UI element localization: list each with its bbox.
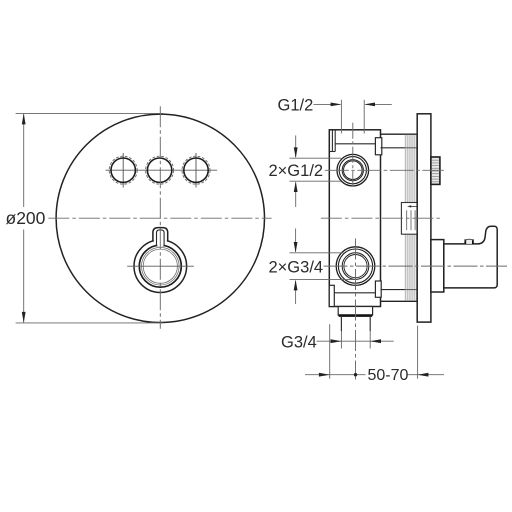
dimension ø200 extension top — [16, 112, 164, 114]
button 2 — [146, 156, 174, 184]
svg-text:50-70: 50-70 — [368, 367, 409, 384]
dimension 2xG3/4 extension lines — [290, 253, 356, 280]
front plate circle — [56, 114, 264, 322]
dimension 50-70 arrows — [319, 373, 429, 377]
centerline port G1/2 axis — [325, 169, 444, 171]
button crosshair horizontal — [106, 169, 218, 171]
knob body circle — [139, 245, 181, 287]
button 1 crosshair vertical — [122, 153, 124, 188]
button 3 crosshair vertical — [195, 153, 197, 188]
dimension G3/4 extension right — [369, 331, 371, 349]
centerline port G3/4 vertical — [355, 239, 357, 380]
dimension G1/2 leader left with arrow — [314, 103, 342, 107]
centerline port G1/2 vertical — [352, 123, 354, 190]
body internal line top — [335, 143, 375, 145]
handle hub — [431, 240, 444, 292]
centerline horizontal main axis front — [48, 217, 271, 219]
knob inner rings — [142, 247, 180, 285]
port G3/4 circles — [336, 247, 375, 286]
dimension 50-70 line right — [408, 374, 445, 376]
dimension G1/2 right arrow — [364, 103, 392, 107]
svg-text:2×G3/4: 2×G3/4 — [269, 258, 324, 276]
sleeve clamp block — [401, 203, 417, 235]
dimension ø200 line upper — [23, 114, 25, 207]
dimension 2xG3/4 arrows — [294, 229, 298, 305]
body bottom-left tab — [329, 285, 334, 306]
dimension 2xG1/2 extension lines — [290, 158, 342, 181]
dimension G3/4 line — [317, 340, 394, 342]
dimension ø200 line lower — [23, 230, 25, 323]
svg-text:ø200: ø200 — [6, 208, 46, 228]
centerline vertical front view — [159, 106, 161, 328]
centerline main axis right view — [321, 217, 441, 219]
body top-right tab — [375, 138, 381, 155]
svg-text:G1/2: G1/2 — [278, 96, 314, 114]
button 1 — [109, 156, 137, 184]
outlet pipe left wall — [340, 316, 342, 331]
valve body block — [329, 130, 380, 307]
body internal line bottom — [334, 292, 375, 294]
dimension G3/4 arrows — [331, 339, 381, 343]
knob crosshair horizontal — [127, 265, 194, 267]
centerline port G3/4 axis — [324, 265, 508, 267]
body top-left slot — [329, 130, 335, 152]
dimension ø200 arrow down — [22, 312, 26, 323]
temperature knob knurled — [431, 157, 440, 184]
handle button — [465, 239, 474, 244]
dimension 2xG1/2 arrows — [294, 135, 298, 207]
handle lever — [444, 226, 497, 288]
dimension 50-70 line left — [305, 374, 366, 376]
wall plate — [417, 114, 431, 322]
knob outer tab — [153, 228, 168, 242]
dimension G3/4 extension left — [340, 331, 342, 349]
dimension ø200 extension bottom — [16, 322, 164, 324]
thread ribs — [405, 135, 416, 301]
outlet pipe right wall — [369, 316, 371, 331]
button 3 — [182, 156, 210, 184]
svg-text:2×G1/2: 2×G1/2 — [269, 162, 324, 180]
sleeve bottom lines — [381, 290, 418, 302]
knob outer ring — [134, 240, 187, 293]
dimension G1/2 extension lines — [341, 100, 364, 134]
dimension ø200 arrow up — [22, 113, 26, 124]
dimension 50-70 node dot — [354, 373, 357, 376]
body bottom-right tab — [375, 281, 381, 297]
port G1/2 circles — [337, 154, 369, 186]
svg-text:G3/4: G3/4 — [281, 333, 317, 351]
knob inner tab — [157, 230, 165, 246]
dimension 50-70 extension lines — [330, 324, 418, 379]
thread end marks — [405, 148, 417, 290]
bottom flange — [338, 307, 372, 316]
sleeve top lines — [381, 134, 418, 148]
